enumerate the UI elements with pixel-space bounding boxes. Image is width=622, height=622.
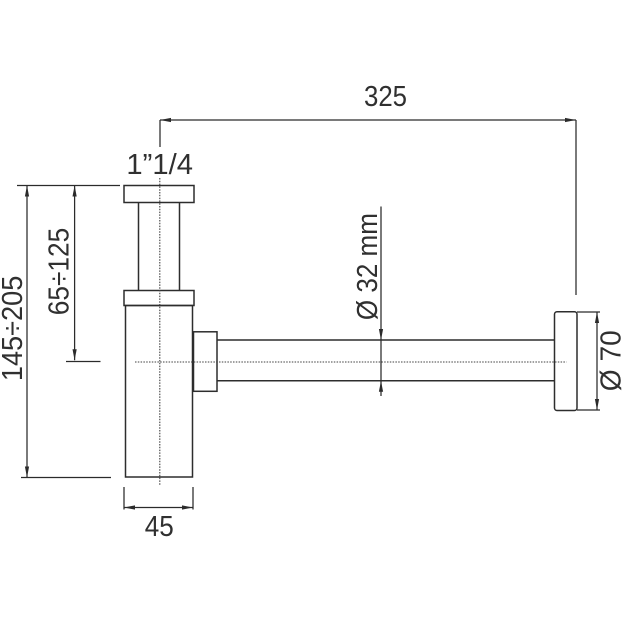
dim 325 line: [160, 119, 576, 121]
svg-text:145÷205: 145÷205: [0, 276, 29, 382]
bottom tick: [21, 477, 111, 479]
arrow d70 top: [595, 312, 599, 323]
dim d32 tail: [380, 381, 382, 396]
dim 45 left extension: [123, 487, 125, 510]
top tick: [17, 185, 120, 187]
dim 45 right extension: [192, 487, 194, 510]
arrow 65-125 bottom: [73, 349, 77, 360]
tailpiece tube left edge: [138, 203, 140, 291]
wall flange: [555, 312, 578, 411]
arrow 45 left: [124, 505, 135, 509]
svg-text:Ø 70: Ø 70: [595, 330, 622, 391]
arrow 325 left: [160, 118, 171, 122]
tailpiece tube right edge: [179, 203, 181, 291]
vertical centerline: [159, 178, 161, 486]
arrow 145-205 bottom: [25, 467, 29, 478]
horizontal centerline: [135, 361, 567, 363]
inlet nut flange: [124, 186, 194, 203]
svg-text:325: 325: [364, 81, 407, 113]
cup body: [126, 306, 193, 478]
dim 325 right extension: [575, 120, 577, 295]
svg-text:1”1/4: 1”1/4: [126, 149, 193, 181]
pipe bottom edge: [217, 380, 555, 382]
pipe top edge: [217, 339, 555, 341]
dim d32 line upper: [380, 207, 382, 381]
65-125 bottom tick: [66, 361, 101, 363]
arrowheads: [25, 118, 599, 510]
arrow 65-125 top: [73, 186, 77, 197]
centerlines: [135, 178, 567, 486]
svg-text:45: 45: [145, 511, 174, 543]
svg-text:65÷125: 65÷125: [44, 228, 76, 316]
arrow d70 bottom: [595, 399, 599, 410]
collar: [124, 291, 194, 306]
dimension lines: [17, 120, 600, 510]
dim 65-125 line: [74, 186, 76, 361]
arrow 45 right: [182, 505, 193, 509]
arrow d32 down: [379, 329, 383, 340]
trap body outline group: [124, 186, 577, 478]
d70 bottom tick: [577, 409, 600, 411]
arrow d32 up: [379, 381, 383, 392]
dim 145-205 line: [26, 186, 28, 478]
arrow 145-205 top: [25, 186, 29, 197]
dim 45 line: [124, 507, 193, 509]
arrow 325 right: [565, 118, 576, 122]
outlet block: [194, 332, 218, 392]
svg-text:Ø 32 mm: Ø 32 mm: [352, 213, 384, 320]
d70 top tick: [577, 311, 600, 313]
dim 325 left extension: [159, 120, 161, 147]
dim d70 line: [596, 312, 598, 410]
